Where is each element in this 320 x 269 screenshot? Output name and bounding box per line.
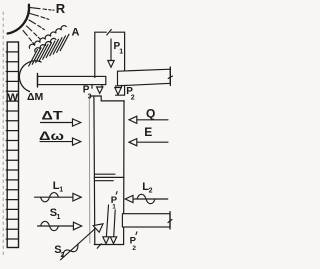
left beam end cap bbox=[37, 74, 39, 88]
middle+bottom column right edge bbox=[123, 101, 125, 245]
P2 triangle bbox=[115, 88, 122, 95]
Q arrow bbox=[137, 119, 168, 121]
middle column bbox=[91, 96, 125, 101]
P1' arrow bbox=[106, 205, 108, 237]
P1 arrow bbox=[110, 39, 112, 61]
P2 support ticks bbox=[116, 85, 125, 95]
dOmega arrow bbox=[40, 141, 73, 143]
sun ray 2 bbox=[30, 14, 49, 20]
sun arc bbox=[8, 5, 29, 34]
S1 arrow bbox=[38, 225, 74, 227]
right beam cut cap bbox=[169, 67, 171, 86]
S2 arrow bbox=[61, 227, 98, 260]
P3 support ticks bbox=[92, 85, 102, 89]
sun ray 4 bbox=[27, 26, 41, 39]
cloud scallops row 1 bbox=[29, 26, 66, 49]
P3 triangle bbox=[97, 87, 103, 93]
svg-text:Q: Q bbox=[146, 107, 155, 121]
sun ray 3 bbox=[29, 20, 44, 30]
svg-text:1: 1 bbox=[119, 49, 123, 56]
svg-text:3: 3 bbox=[88, 94, 92, 101]
sun ray to R (dashed) bbox=[31, 8, 55, 11]
svg-text:ΔT: ΔT bbox=[42, 109, 64, 123]
E arrow bbox=[137, 141, 168, 143]
svg-text:Δω: Δω bbox=[39, 129, 64, 143]
P2' arrow bbox=[114, 210, 116, 237]
bottom column bbox=[94, 174, 124, 244]
hatch band A bbox=[29, 34, 69, 66]
svg-text:2: 2 bbox=[132, 245, 136, 252]
svg-text:1: 1 bbox=[57, 214, 61, 221]
svg-text:R: R bbox=[56, 1, 66, 16]
svg-text:2: 2 bbox=[61, 252, 65, 259]
L1 arrow bbox=[35, 196, 74, 198]
bottom beam cut cap bbox=[169, 212, 171, 229]
svg-text:ΔM: ΔM bbox=[27, 91, 44, 103]
svg-text:1: 1 bbox=[112, 203, 116, 210]
right beam bbox=[118, 69, 171, 86]
svg-text:2: 2 bbox=[131, 94, 135, 101]
ladder rungs upper bbox=[6, 52, 18, 141]
bottom column break mark bbox=[97, 244, 101, 249]
cloud scallops row 2 bbox=[35, 38, 56, 51]
svg-text:W: W bbox=[7, 92, 18, 104]
svg-text:1: 1 bbox=[59, 187, 63, 194]
top column bbox=[95, 32, 125, 77]
dT arrow bbox=[41, 122, 73, 124]
left beam bbox=[38, 76, 106, 84]
ladder wall W outline bbox=[7, 42, 18, 248]
svg-text:A: A bbox=[72, 27, 80, 39]
middle+bottom column left edge bbox=[93, 96, 96, 245]
top column break mark bbox=[107, 30, 112, 36]
page edge faint line bbox=[2, 12, 4, 258]
L2 arrow bbox=[133, 198, 168, 200]
M curved arrow bbox=[19, 61, 41, 92]
svg-text:2: 2 bbox=[149, 187, 153, 194]
middle column faint outer-left line bbox=[88, 96, 91, 243]
svg-text:E: E bbox=[144, 125, 152, 139]
bottom beam bbox=[122, 214, 170, 227]
ladder rungs lower bbox=[6, 150, 18, 239]
sun ray 5 bbox=[23, 31, 34, 45]
